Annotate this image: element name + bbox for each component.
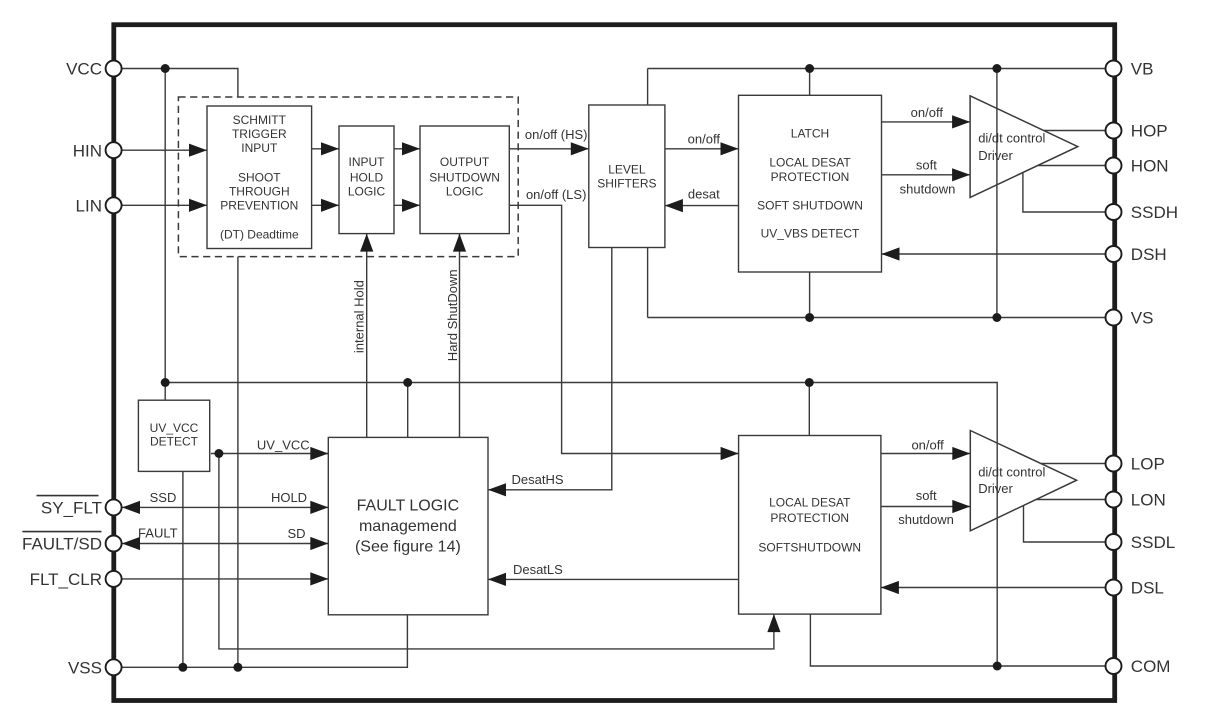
arrow FAULT out to FAULT/SD pin [122,537,140,550]
arrow SSD out to SY_FLT pin [122,501,140,514]
arrow into output shutdown (HS) [402,142,420,155]
block: LATCH / LOCAL DESAT PROTECTION / SOFT SHUTDOWN / UV_VBS DETECT [739,95,882,272]
arrow on/off into HS driver [952,115,970,128]
svg-text:DSH: DSH [1131,245,1167,264]
block: LOCAL DESAT PROTECTION / SOFTSHUTDOWN (low side) [739,436,881,615]
arrow internal Hold up [360,234,373,252]
dashed input-stage group box [178,97,518,257]
block: LEVEL SHIFTERS [589,105,665,248]
wire: input hold to output shutdown (HS row) [394,148,420,150]
junction UV_VCC branch [214,449,223,458]
svg-text:Driver: Driver [978,481,1013,496]
arrow HIN into input block [189,144,207,157]
arrow soft shutdown into HS driver [952,168,970,181]
svg-text:COM: COM [1131,657,1171,676]
svg-text:UV_VCC: UV_VCC [150,421,199,435]
low-side di/dt control Driver (triangle U2) [970,431,1076,531]
svg-text:SOFT SHUTDOWN: SOFT SHUTDOWN [757,198,863,212]
svg-text:FAULT/SD: FAULT/SD [22,535,102,554]
svg-text:HOLD: HOLD [350,171,384,185]
pin circle LOP [1106,456,1122,472]
svg-text:SHUTDOWN: SHUTDOWN [429,171,500,185]
wire: driver to SSDL pin [1024,506,1106,542]
svg-text:HOLD: HOLD [271,490,307,505]
arrow into output shutdown (LS) [402,199,420,212]
wire: driver to SSDH pin [1023,173,1106,212]
svg-text:OUTPUT: OUTPUT [440,155,490,169]
wire: LATCH desat back to level shifters [665,205,739,207]
pin circle VCC [106,61,122,77]
svg-text:DSL: DSL [1131,579,1164,598]
junction VSS / dashed box [233,663,242,672]
svg-text:LIN: LIN [76,197,102,216]
svg-text:LOGIC: LOGIC [446,185,484,199]
pin circle SSDH [1106,204,1122,220]
svg-text:SHOOT: SHOOT [238,170,281,184]
wire: level shifters bottom to VS rail [647,248,649,318]
svg-text:VSS: VSS [68,659,102,678]
svg-text:DesatHS: DesatHS [511,472,563,487]
svg-text:SY_FLT: SY_FLT [41,499,102,518]
svg-text:SSDH: SSDH [1131,203,1178,222]
wire: VCC pin to dashed box top [122,69,238,97]
wire: Hard ShutDown [459,234,461,438]
wire: input hold to output shutdown (LS row) [394,204,420,206]
wire: DSH pin to LATCH [882,253,1106,255]
wire: VB rail [648,68,1106,70]
svg-text:PREVENTION: PREVENTION [220,199,298,213]
wire: VCC rail into low-side local desat top [808,383,810,436]
wire: on/off (LS) to low-side local desat [509,205,738,453]
block: FAULT LOGIC management [328,437,488,614]
junction COM / driver rail [993,662,1002,671]
block: SCHMITT TRIGGER INPUT / SHOOT THROUGH PREVENTION [207,106,312,249]
IC boundary (thick outer border) [114,25,1115,701]
pin circle VSS [106,659,122,675]
svg-text:SD: SD [287,526,305,541]
svg-text:UV_VBS DETECT: UV_VBS DETECT [761,226,860,240]
wire: DesatLS from local desat to FAULT LOGIC [488,578,739,580]
svg-text:UV_VCC: UV_VCC [257,438,310,453]
svg-text:HOP: HOP [1131,122,1168,141]
wire: local desat to driver on/off (LS) [881,453,970,455]
svg-text:INPUT: INPUT [241,141,278,155]
wire: level shifters to LATCH on/off [665,148,739,150]
pin circle FAULT/SD [106,536,122,552]
svg-text:(DT) Deadtime: (DT) Deadtime [220,227,299,241]
wire: HIN pin to input block [122,149,207,151]
pin circle DSL [1106,580,1122,596]
wire: local desat to driver soft shutdown (LS) [881,506,970,508]
arrow FLT_CLR into FAULT LOGIC [310,572,328,585]
arrow DSH into LATCH [882,247,900,260]
svg-text:Hard ShutDown: Hard ShutDown [445,269,460,361]
wire: schmitt to input hold (HS row) [312,148,339,150]
svg-text:HON: HON [1131,157,1169,176]
svg-text:LON: LON [1131,491,1166,510]
svg-text:LOCAL DESAT: LOCAL DESAT [769,495,851,509]
arrow HOLD into FAULT LOGIC [310,501,328,514]
wire: VSS rail up into FAULT LOGIC [122,615,408,668]
junction VS/LATCH [805,313,814,322]
svg-text:di/dt control: di/dt control [978,131,1045,146]
wire: on/off (HS) to level shifters [509,148,589,150]
arrow Hard ShutDown up [453,234,466,252]
wire: dashed box bottom to VSS rail [237,257,239,668]
svg-text:INPUT: INPUT [349,155,386,169]
wire: level shifters top to VB rail [647,69,649,106]
svg-text:managemend: managemend [359,518,457,535]
wire: FLT_CLR row [122,578,329,580]
block: INPUT HOLD LOGIC [339,126,394,234]
pin circle VB [1106,61,1122,77]
svg-text:soft: soft [916,157,937,172]
wire: driver to HOP pin [1044,130,1106,132]
svg-text:SHIFTERS: SHIFTERS [597,177,656,191]
wire: VS rail [648,317,1106,319]
wire: driver to LOP pin [1041,463,1106,465]
svg-text:SCHMITT: SCHMITT [233,113,287,127]
svg-text:SOFTSHUTDOWN: SOFTSHUTDOWN [758,540,861,554]
overline for FAULT/SD [22,531,101,533]
svg-text:DETECT: DETECT [150,434,199,448]
arrow into input hold (HS) [321,142,339,155]
wire: DSL pin to local desat [881,587,1106,589]
svg-text:VS: VS [1131,309,1154,328]
arrow into LS driver on/off [952,447,970,460]
wire: LIN pin to input block [122,204,207,206]
block: UV_VCC DETECT [138,400,209,471]
junction VS/driver rail [992,313,1001,322]
svg-text:(See figure 14): (See figure 14) [355,539,461,556]
arrow DesatLS into FAULT LOGIC [488,573,506,586]
junction VSS / UV_VCC detect [178,663,187,672]
wire: driver to LON pin [1036,499,1105,501]
arrow UV_VCC into FAULT LOGIC [310,447,328,460]
arrow on/off into LATCH [721,142,739,155]
wire: LATCH to driver on/off [882,121,971,123]
wire: UV_VCC into FAULT LOGIC [211,453,328,455]
svg-text:on/off: on/off [911,105,944,120]
svg-text:LATCH: LATCH [791,126,829,140]
wire: schmitt to input hold (LS row) [312,204,339,206]
arrow on/off HS into level shifters [571,142,589,155]
svg-text:VB: VB [1131,60,1154,79]
svg-text:soft: soft [916,488,937,503]
arrow DSL into local desat [881,581,899,594]
pin circle LIN [106,197,122,213]
pin circle FLT_CLR [106,571,122,587]
svg-text:FLT_CLR: FLT_CLR [30,570,102,589]
wire: FAULT / SD row (FAULT/SD) [122,543,329,545]
arrow UV_VCC branch up into local desat [767,614,780,632]
arrow desat into level shifters [665,199,683,212]
pin circle SY_FLT [106,499,122,515]
svg-text:FAULT: FAULT [138,525,178,540]
wire: driver to HON pin [1038,165,1106,167]
pin circle COM [1106,658,1122,674]
wire: UV_VCC DETECT bottom to VSS rail [182,471,184,667]
svg-text:HIN: HIN [73,141,102,160]
wire: LATCH to driver soft shutdown [882,174,971,176]
arrow DesatHS into FAULT LOGIC [488,483,506,496]
arrow SD into FAULT LOGIC [310,537,328,550]
svg-text:di/dt control: di/dt control [978,464,1045,479]
wire: internal Hold [366,234,368,438]
pin circle DSH [1106,246,1122,262]
svg-text:on/off: on/off [911,437,944,452]
svg-text:PROTECTION: PROTECTION [770,511,849,525]
svg-text:LOGIC: LOGIC [348,185,386,199]
wire: VB rail into LATCH top [809,69,811,96]
svg-text:TRIGGER: TRIGGER [232,127,287,141]
arrow into input hold (LS) [321,199,339,212]
svg-text:DesatLS: DesatLS [513,562,563,577]
svg-text:internal Hold: internal Hold [352,280,367,353]
wire: UV_VCC branch to low-side local desat [219,454,774,649]
pin circle HOP [1106,123,1122,139]
svg-text:SSD: SSD [150,490,177,505]
pin circle VS [1106,310,1122,326]
svg-text:on/off (HS): on/off (HS) [525,127,588,142]
svg-text:shutdown: shutdown [898,512,954,527]
svg-text:SSDL: SSDL [1131,533,1175,552]
pin circle SSDL [1106,534,1122,550]
wire: DesatHS from level shifters to FAULT LOGIC [488,248,612,490]
junction VCC rail / local desat [805,378,814,387]
block: OUTPUT SHUTDOWN LOGIC [420,126,509,234]
arrow LIN into input block [189,199,207,212]
wire: VCC rail into FAULT LOGIC top [407,383,409,438]
wire: LATCH bottom to VS rail [809,272,811,318]
svg-text:PROTECTION: PROTECTION [771,170,850,184]
wire: VCC branch down to UV_VCC DETECT [164,69,166,401]
svg-text:LOP: LOP [1131,455,1165,474]
svg-text:FAULT LOGIC: FAULT LOGIC [357,497,460,514]
svg-text:LEVEL: LEVEL [608,163,646,177]
pin circle HIN [106,142,122,158]
arrow on/off LS into low-side local desat [721,447,739,460]
high-side di/dt control Driver (triangle U1) [970,96,1078,198]
svg-text:THROUGH: THROUGH [229,185,290,199]
svg-text:desat: desat [688,187,720,202]
svg-text:shutdown: shutdown [900,181,956,196]
wire: VCC rail across middle down to COM [165,383,997,667]
junction VCC rail / fault logic [403,378,412,387]
svg-text:LOCAL DESAT: LOCAL DESAT [769,155,851,169]
svg-text:on/off (LS): on/off (LS) [526,187,586,202]
pin circle LON [1106,492,1122,508]
wire: SSD / HOLD row (SY_FLT) [122,506,329,508]
overline for SY_FLT [37,495,99,497]
wire: local desat bottom to COM rail [810,614,1105,666]
wire: VB-VS rail through high-side driver [996,69,998,318]
junction VB/driver rail [992,64,1001,73]
arrow into LS driver soft shutdown [952,500,970,513]
svg-text:Driver: Driver [978,148,1013,163]
svg-text:on/off: on/off [688,132,721,147]
pin circle HON [1106,158,1122,174]
junction at VCC branch [161,64,170,73]
junction VB/LATCH [805,64,814,73]
svg-text:VCC: VCC [66,60,102,79]
junction VCC rail left [161,378,170,387]
